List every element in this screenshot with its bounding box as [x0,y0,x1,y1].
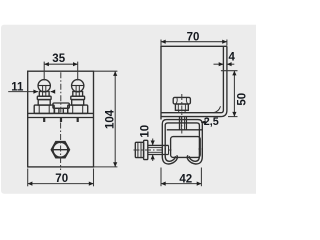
svg-text:42: 42 [179,173,192,185]
svg-text:70: 70 [55,173,68,185]
svg-text:11: 11 [11,81,24,93]
svg-text:2,5: 2,5 [204,116,219,128]
svg-text:50: 50 [236,93,248,106]
svg-text:70: 70 [187,32,200,44]
svg-text:10: 10 [139,125,151,138]
svg-text:4: 4 [228,51,235,63]
svg-text:104: 104 [105,109,117,129]
svg-text:35: 35 [52,53,65,65]
